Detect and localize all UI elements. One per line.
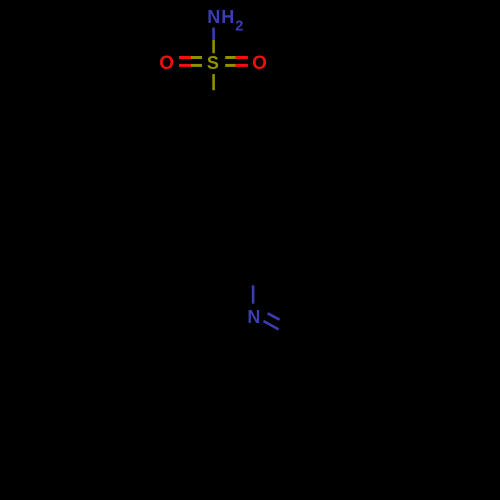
- svg-text:2: 2: [235, 18, 243, 34]
- svg-text:S: S: [207, 53, 219, 73]
- svg-text:N: N: [247, 307, 260, 327]
- svg-text:O: O: [252, 53, 267, 74]
- svg-text:O: O: [159, 53, 174, 74]
- svg-text:NH: NH: [207, 7, 235, 27]
